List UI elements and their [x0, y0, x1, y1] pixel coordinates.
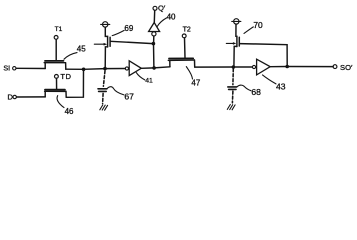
- capacitor 68 dashed lead bottom: [231, 91, 234, 103]
- wire node C riser to gate net of 69: [153, 44, 155, 68]
- node T1 terminal: [54, 26, 62, 40]
- svg-text:67: 67: [124, 91, 134, 101]
- wire node A to node B: [84, 68, 105, 71]
- wire node E to SO' terminal: [287, 66, 333, 68]
- label 45 with leader: [64, 45, 86, 60]
- node Q' terminal: [153, 3, 166, 12]
- label 47 with leader: [186, 67, 201, 88]
- wire gate of 69 to node C riser: [110, 41, 152, 43]
- capacitor 67: [98, 89, 107, 92]
- node TD terminal: [55, 72, 72, 81]
- op-amp U41 inverter: [125, 61, 141, 76]
- svg-text:70: 70: [253, 20, 263, 30]
- wire gate of 70 feedback to node E: [240, 44, 288, 67]
- op-amp U40 inverter to Q': [149, 10, 160, 43]
- node SO' terminal: [333, 63, 353, 72]
- svg-text:41: 41: [145, 77, 153, 84]
- wire SI to transistor 45: [16, 67, 45, 69]
- label 68 with leader: [237, 85, 261, 97]
- ground below capacitor 68: [227, 105, 235, 110]
- ground below capacitor 67: [100, 105, 108, 110]
- svg-text:TD: TD: [60, 72, 71, 81]
- label 67 with leader: [107, 87, 134, 102]
- svg-text:40: 40: [167, 12, 176, 21]
- transistor 45: [44, 39, 66, 69]
- node SI terminal: [3, 64, 16, 73]
- node B junction: [103, 67, 107, 71]
- svg-text:45: 45: [77, 45, 86, 54]
- svg-text:SO′: SO′: [340, 63, 353, 72]
- transistor 47: [168, 38, 194, 67]
- wire 45 drain to node A: [66, 68, 84, 70]
- capacitor 67 dashed lead top: [103, 71, 105, 86]
- label 69 with leader: [112, 24, 134, 35]
- label 43 with leader: [263, 75, 286, 92]
- transistor 69: [94, 27, 110, 68]
- wire D to transistor 46: [17, 96, 46, 98]
- label 46 with leader: [57, 96, 74, 116]
- node D junction: [232, 65, 236, 69]
- wire 46 drain riser: [66, 69, 83, 97]
- svg-text:SI: SI: [3, 64, 10, 73]
- svg-text:T1: T1: [55, 26, 63, 33]
- node D terminal: [7, 93, 16, 102]
- node E junction: [285, 65, 289, 69]
- label 70 with leader: [244, 20, 263, 33]
- label 40 with leader: [157, 12, 176, 26]
- capacitor 68: [228, 87, 237, 90]
- svg-text:69: 69: [124, 24, 133, 33]
- wire inverter 43 output to node E: [270, 66, 287, 68]
- wire node C to transistor 47: [154, 67, 170, 68]
- transistor 46: [45, 78, 67, 97]
- node T2 terminal: [182, 27, 191, 38]
- svg-text:46: 46: [65, 107, 74, 116]
- label 41 with leader: [136, 73, 153, 85]
- svg-text:43: 43: [276, 82, 286, 92]
- svg-text:47: 47: [191, 78, 200, 87]
- node A junction: [82, 68, 86, 72]
- power terminal of 69: [101, 22, 110, 27]
- svg-text:Q′: Q′: [158, 3, 166, 12]
- power terminal of 70: [232, 19, 241, 24]
- node C junction: [152, 66, 156, 70]
- op-amp U43 inverter: [252, 59, 270, 75]
- capacitor 67 dashed lead bottom: [102, 93, 105, 103]
- capacitor 68 dashed lead top: [232, 69, 234, 85]
- svg-text:T2: T2: [183, 27, 191, 34]
- svg-text:68: 68: [251, 87, 261, 97]
- transistor 70: [226, 24, 239, 67]
- node C2 junction: [152, 42, 156, 46]
- wire inverter 41 output to node C: [141, 67, 154, 69]
- wire node D to inverter 43: [233, 66, 252, 68]
- wire node B to inverter 41: [105, 68, 125, 70]
- wire transistor 47 to node D: [195, 66, 234, 68]
